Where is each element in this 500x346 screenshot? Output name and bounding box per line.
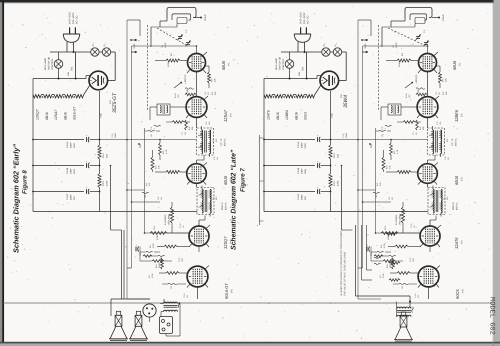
wire V5 plate down <box>197 287 199 299</box>
wire rail 2 <box>33 165 84 167</box>
wire V2 plate down <box>196 117 198 128</box>
resistor cathode R6 <box>161 258 164 269</box>
capacitor .002 <box>416 88 425 89</box>
resistor cathode R6 <box>392 258 395 269</box>
wire rail 1 <box>264 139 315 141</box>
wire bottom rail <box>264 211 428 213</box>
wire B+ to output <box>110 166 112 231</box>
capacitor 20MF 150V <box>317 163 319 168</box>
svg-text:LINE: LINE <box>100 113 103 118</box>
svg-text:R-12: R-12 <box>333 152 336 158</box>
wire left rail <box>263 95 265 212</box>
svg-text:150V: 150V <box>304 142 307 148</box>
wire T2 to V4 <box>435 216 437 221</box>
svg-text:470Ω: 470Ω <box>106 180 109 186</box>
wire left rail <box>32 95 34 212</box>
svg-text:150V: 150V <box>73 142 76 148</box>
svg-text:R-13: R-13 <box>333 180 336 186</box>
wire plug leads <box>297 42 299 52</box>
speaker A <box>115 315 122 326</box>
svg-text:15Ω: 15Ω <box>67 72 70 76</box>
capacitor cluster audio <box>146 251 153 252</box>
wire dial lamp to switch <box>289 52 291 60</box>
wire V4 down <box>429 246 431 252</box>
rectifier tube 35Z5-GT <box>89 71 108 90</box>
wire loop leads <box>404 18 406 21</box>
capacitor 40-40MF <box>86 189 88 194</box>
wire box bottom <box>165 334 167 337</box>
resistor diode load <box>381 232 398 235</box>
svg-text:VOLUME: VOLUME <box>168 215 171 225</box>
svg-text:GND: GND <box>133 43 136 48</box>
svg-text:P.L.: P.L. <box>104 42 107 46</box>
svg-text:22Ω: 22Ω <box>337 154 340 158</box>
svg-text:12SQ7: 12SQ7 <box>36 109 40 120</box>
svg-text:470K: 470K <box>382 273 385 278</box>
svg-text:LOOP: LOOP <box>164 42 167 48</box>
wire rail 3 <box>33 191 84 193</box>
svg-text:DIAL LAMP: DIAL LAMP <box>44 58 47 70</box>
resistor grid V3 <box>166 171 180 174</box>
svg-text:470K: 470K <box>151 273 154 278</box>
tube V1 6BJ6 <box>419 54 437 72</box>
svg-text:15Ω: 15Ω <box>298 72 301 76</box>
loop antenna <box>405 8 432 19</box>
capacitor osc padder <box>385 125 392 126</box>
IF transformer T2 455KC <box>428 188 445 215</box>
AC line plug <box>294 34 311 42</box>
pilot lamp P.L. 1 <box>91 48 99 56</box>
wire cathode drop <box>99 91 101 145</box>
capacitor .05 <box>142 192 149 193</box>
svg-text:22K: 22K <box>445 78 448 82</box>
svg-text:LINE: LINE <box>331 113 334 118</box>
oscillator coil box <box>157 104 170 115</box>
svg-text:GND: GND <box>364 43 367 48</box>
tuning gang dashed link <box>157 28 186 45</box>
loop antenna <box>167 8 196 19</box>
resistor audio coupling <box>164 245 177 248</box>
svg-text:47K: 47K <box>389 165 392 169</box>
svg-text:C-15A: C-15A <box>297 141 300 148</box>
svg-text:150Ω: 150Ω <box>158 263 161 268</box>
resistor audio coupling <box>395 245 408 248</box>
capacitor .05 right <box>374 257 381 258</box>
svg-text:455 KC: 455 KC <box>456 202 459 210</box>
tube V2 converter <box>417 97 438 118</box>
junction dots misc <box>196 45 198 47</box>
svg-text:470K: 470K <box>383 243 386 248</box>
oscillator adj arrow <box>405 82 413 88</box>
wire bus connectors <box>331 139 428 141</box>
resistor audio right 1 <box>386 233 397 236</box>
svg-text:50L6-GT: 50L6-GT <box>224 283 229 299</box>
svg-text:6BJ6: 6BJ6 <box>45 112 49 120</box>
resistor osc <box>416 93 427 96</box>
svg-text:+: + <box>268 302 270 306</box>
wire loop leads <box>166 18 168 21</box>
resistor audio right 2 <box>389 262 400 265</box>
svg-text:R-1A: R-1A <box>174 93 177 98</box>
wire V2 plate down <box>427 117 429 128</box>
svg-text:6BJ6: 6BJ6 <box>452 60 457 70</box>
tuning gang dashed link <box>388 28 424 45</box>
wire bus B+ long <box>357 20 359 299</box>
border frame left <box>2 1 4 343</box>
wire plug leads <box>66 42 68 52</box>
svg-text:Figure 7: Figure 7 <box>240 168 247 192</box>
tube V3 6BJ6 <box>418 164 438 184</box>
junction dots rails <box>99 139 101 141</box>
wire bus 3 <box>375 128 377 233</box>
output transformer T3 (early) <box>164 302 178 303</box>
svg-text:50L6-GT: 50L6-GT <box>73 106 77 120</box>
IF transformer T1 455KC <box>428 128 445 155</box>
AC line plug <box>63 34 80 42</box>
svg-text:470K: 470K <box>152 243 155 248</box>
svg-text:COND: COND <box>442 14 445 21</box>
svg-text:25V: 25V <box>304 196 307 200</box>
junction dots rails <box>330 139 332 141</box>
output transformer T2 (late) <box>397 307 411 308</box>
switch SW on AC lead <box>75 52 77 79</box>
svg-text:455 KC: 455 KC <box>224 138 227 146</box>
wire bottom rail <box>33 211 197 213</box>
svg-text:35W4: 35W4 <box>343 95 349 108</box>
svg-text:25V: 25V <box>73 196 76 200</box>
resistor R filter 1 <box>98 145 101 159</box>
wire V1 connections <box>155 60 166 62</box>
wire V5 plate down <box>428 287 430 299</box>
resistor plate V1 <box>439 72 442 83</box>
svg-text:20MF: 20MF <box>301 168 304 174</box>
wire bus 2 <box>131 46 133 268</box>
svg-text:2ND I.F.: 2ND I.F. <box>452 201 455 210</box>
svg-text:Figure 8: Figure 8 <box>22 170 29 194</box>
svg-text:R-13: R-13 <box>102 180 105 186</box>
resistor 22K osc <box>185 120 188 130</box>
svg-text:CONTROL: CONTROL <box>282 58 285 70</box>
junction dots misc <box>427 45 429 47</box>
border frame bottom <box>0 342 500 344</box>
wire T2 to V4 <box>204 216 206 221</box>
wire osc box leads <box>401 106 417 108</box>
resistor grid V5 <box>166 272 179 275</box>
wire V1 connections <box>386 60 397 62</box>
wire V4 down <box>198 246 200 252</box>
trimmer capacitor C1 <box>416 35 420 37</box>
capacitor 20MF 150V <box>86 163 88 168</box>
wire rail 2 <box>264 165 315 167</box>
IF transformer T1 455KC <box>197 128 214 155</box>
capacitor cluster audio <box>377 251 384 252</box>
resistor grid V1 <box>166 59 180 62</box>
capacitor tone .02 <box>399 283 408 284</box>
wire AC return bus late <box>259 135 261 225</box>
capacitor 40MF 150V <box>317 137 319 142</box>
capacitor osc padder <box>154 125 161 126</box>
resistor R filter 2 <box>98 174 101 188</box>
rectifier tube 35W4 <box>320 71 339 90</box>
antenna terminal arrow <box>131 39 137 41</box>
svg-text:THE VALUE OF R6 IS TO BE 180 O: THE VALUE OF R6 IS TO BE 180 OHMS <box>344 252 347 296</box>
oscillator coil box <box>388 104 401 115</box>
wire bus connectors <box>100 139 197 141</box>
svg-text:6BJ6: 6BJ6 <box>63 112 67 120</box>
wire speaker feed <box>409 296 411 307</box>
svg-text:≈ 455 KC: ≈ 455 KC <box>415 74 418 84</box>
resistor diode load <box>150 232 167 235</box>
svg-text:1ST I.F.: 1ST I.F. <box>220 138 223 146</box>
pilot lamp P.L. 1 <box>322 48 330 56</box>
resistor grid V1 <box>397 59 411 62</box>
svg-text:P.L.: P.L. <box>323 42 326 46</box>
svg-text:COND: COND <box>204 14 207 21</box>
border frame top <box>0 0 494 2</box>
wire T1 to V3 <box>203 155 205 160</box>
resistor grid V3 <box>397 171 411 174</box>
capacitor tone .02 <box>168 283 177 284</box>
svg-text:22Ω: 22Ω <box>106 154 109 158</box>
svg-text:22K: 22K <box>214 78 217 82</box>
svg-text:40MF: 40MF <box>114 132 117 138</box>
wire speaker bus left <box>123 230 125 299</box>
wire T1 to V3 <box>434 155 436 160</box>
wire main node y78 <box>33 78 86 80</box>
svg-text:470K: 470K <box>156 235 159 240</box>
resistor osc grid <box>172 121 184 124</box>
svg-text:VOLUME: VOLUME <box>399 215 402 225</box>
svg-text:150V: 150V <box>73 168 76 174</box>
svg-text:47K: 47K <box>158 165 161 169</box>
ground terminal arrow <box>131 51 137 53</box>
svg-text:C-15B: C-15B <box>66 167 69 174</box>
svg-text:4.7K: 4.7K <box>165 149 168 154</box>
resistor plate V1 <box>208 72 211 83</box>
vibrator unit box <box>160 317 173 334</box>
wire osc box leads <box>170 106 186 108</box>
loop terminal COND <box>432 17 438 19</box>
capacitor 40MF 150V <box>86 137 88 142</box>
svg-text:12BE6: 12BE6 <box>454 109 459 122</box>
resistor audio right 3 <box>389 279 400 282</box>
svg-text:≈ 455 KC: ≈ 455 KC <box>184 74 187 84</box>
wire transformer leads <box>160 303 164 305</box>
svg-text:455 KC: 455 KC <box>455 138 458 146</box>
svg-text:R-12: R-12 <box>102 152 105 158</box>
antenna terminal arrow <box>362 39 368 41</box>
capacitor .05 <box>373 192 380 193</box>
svg-text:470Ω: 470Ω <box>337 180 340 186</box>
speaker (late) <box>400 316 407 327</box>
trimmer capacitor C1 <box>178 35 182 37</box>
svg-text:MODEL 602: MODEL 602 <box>488 297 496 335</box>
svg-text:R-1A: R-1A <box>405 93 408 98</box>
svg-text:Schematic Diagram 602 “Late”: Schematic Diagram 602 “Late” <box>231 149 238 250</box>
svg-text:6BJ6: 6BJ6 <box>221 60 226 70</box>
tube V1 6BJ6 <box>188 54 206 72</box>
loop terminal COND <box>194 17 200 19</box>
page right edge line <box>492 0 494 346</box>
resistor screen <box>390 143 393 155</box>
filament heater string <box>33 95 41 98</box>
svg-text:C-15C: C-15C <box>297 193 300 200</box>
horizontal rule <box>4 302 494 304</box>
resistor AVC 47K <box>151 157 154 170</box>
wire lamp bus <box>50 51 91 53</box>
volume control 1MEG <box>170 207 173 223</box>
wire V3 plate <box>196 183 198 187</box>
tube V4 detector <box>189 226 209 246</box>
svg-text:150V: 150V <box>304 168 307 174</box>
wire jack leads <box>149 317 151 322</box>
svg-text:6BJ6: 6BJ6 <box>294 112 298 120</box>
resistor 22K osc <box>416 120 419 130</box>
ground terminal arrow <box>362 51 368 53</box>
svg-text:SWITCH ON: SWITCH ON <box>48 57 51 70</box>
resistor screen <box>159 143 162 155</box>
dial lamp <box>285 60 294 69</box>
svg-text:40MF: 40MF <box>70 194 73 200</box>
svg-text:P.L.: P.L. <box>92 42 95 46</box>
svg-text:C-15B: C-15B <box>297 167 300 174</box>
phono jack socket <box>143 304 156 317</box>
svg-text:35Z5-GT: 35Z5-GT <box>112 92 118 113</box>
wire dial lamp to switch <box>58 52 60 60</box>
pilot lamp P.L. 2 <box>102 48 110 56</box>
wire main node y78 <box>264 78 317 80</box>
svg-text:AC–DC: AC–DC <box>307 15 310 24</box>
wire bus 3 <box>144 128 146 233</box>
tube V5 output <box>418 266 439 287</box>
dial lamp <box>54 60 63 69</box>
svg-text:220Ω: 220Ω <box>167 62 170 67</box>
capacitor .002 <box>185 88 194 89</box>
svg-text:12SA7: 12SA7 <box>223 109 228 122</box>
svg-text:C-15C: C-15C <box>66 193 69 200</box>
capacitor screen bypass <box>379 130 386 131</box>
svg-text:R-4 1MEG: R-4 1MEG <box>164 214 167 225</box>
svg-text:40MF: 40MF <box>70 142 73 148</box>
wire rail 1 <box>33 139 84 141</box>
trimmer capacitor C2 <box>186 41 190 43</box>
svg-text:12BE6: 12BE6 <box>285 110 289 120</box>
wire B+ to output <box>341 166 343 231</box>
wire audio buses right <box>355 225 357 296</box>
resistor AVC 47K <box>382 157 385 170</box>
wire lamp bus <box>281 51 322 53</box>
svg-text:DIAL LAMP: DIAL LAMP <box>275 58 278 70</box>
svg-text:40MF: 40MF <box>301 194 304 200</box>
switch SW on AC lead <box>306 52 308 79</box>
wire rail 3 <box>264 191 315 193</box>
svg-text:455 KC: 455 KC <box>225 202 228 210</box>
resistor R filter 2 <box>329 174 332 188</box>
oscillator adj arrow <box>174 82 182 88</box>
capacitor screen bypass <box>148 130 155 131</box>
svg-text:SW: SW <box>71 66 74 71</box>
svg-text:2ND I.F.: 2ND I.F. <box>221 201 224 210</box>
svg-text:50C5: 50C5 <box>455 289 460 299</box>
resistor R filter 1 <box>329 145 332 159</box>
wire cathode drop <box>330 91 332 145</box>
tube V3 6BJ6 <box>187 164 207 184</box>
svg-text:12AT6: 12AT6 <box>454 237 459 249</box>
wire left rail join <box>263 79 265 95</box>
svg-text:6BJ6: 6BJ6 <box>223 175 228 185</box>
resistor osc grid <box>403 121 415 124</box>
resistor osc <box>185 93 196 96</box>
svg-text:4.7K: 4.7K <box>396 149 399 154</box>
volume control 1MEG <box>401 207 404 223</box>
svg-text:50C5: 50C5 <box>304 112 308 120</box>
svg-text:6BJ6: 6BJ6 <box>276 112 280 120</box>
svg-text:LOOP: LOOP <box>395 42 398 48</box>
tube V5 output <box>187 266 208 287</box>
tube V4 detector <box>420 226 440 246</box>
pilot lamp P.L. 2 <box>333 48 341 56</box>
capacitor 40-40MF <box>317 189 319 194</box>
svg-text:40MF: 40MF <box>301 142 304 148</box>
svg-text:12SQ7: 12SQ7 <box>223 236 228 249</box>
speaker B <box>135 315 142 326</box>
resistor grid V5 <box>397 272 410 275</box>
svg-text:SWITCH ON: SWITCH ON <box>279 57 282 70</box>
trimmer capacitor C2 <box>424 41 428 43</box>
svg-text:AC–DC: AC–DC <box>76 15 79 24</box>
svg-text:40MF: 40MF <box>345 132 348 138</box>
svg-text:C-15A: C-15A <box>66 141 69 148</box>
svg-text:CONTROL: CONTROL <box>51 58 54 70</box>
IF transformer T2 455KC <box>197 188 214 215</box>
svg-text:P.L.: P.L. <box>335 42 338 46</box>
svg-text:Schematic Diagram 602 “Early”: Schematic Diagram 602 “Early” <box>12 144 21 253</box>
wire bus 2 <box>362 46 364 268</box>
wire left rail join <box>32 79 34 95</box>
svg-text:12SA7: 12SA7 <box>54 110 58 120</box>
filament heater string <box>264 95 272 98</box>
svg-text:12AT6: 12AT6 <box>267 110 271 120</box>
wire V3 plate <box>427 183 429 187</box>
svg-text:SW: SW <box>302 66 305 71</box>
svg-text:6BJ6: 6BJ6 <box>454 175 459 185</box>
svg-text:1ST I.F.: 1ST I.F. <box>451 138 454 146</box>
tube V2 converter <box>186 97 207 118</box>
svg-text:20MF: 20MF <box>70 168 73 174</box>
svg-text:R-4 1MEG: R-4 1MEG <box>395 214 398 225</box>
wire bus B+ long <box>126 20 128 299</box>
